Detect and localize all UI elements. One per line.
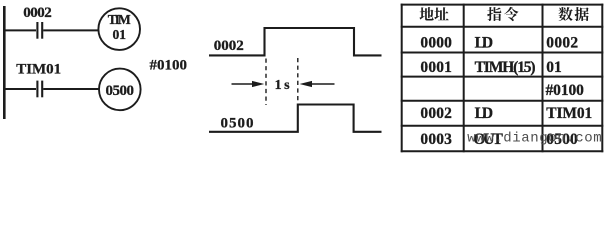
svg-text:01: 01	[546, 59, 562, 76]
svg-text:TIM01: TIM01	[546, 105, 592, 122]
table header cell: data (CJK shu ju)	[558, 7, 588, 21]
timer coil TIM 01 circle	[98, 8, 140, 50]
dashed marker at 0500 rising edge	[297, 58, 299, 103]
svg-text:#0100: #0100	[150, 58, 188, 74]
svg-text:LD: LD	[475, 34, 494, 51]
svg-text:01: 01	[112, 27, 126, 42]
table grid	[401, 4, 604, 153]
svg-text:0500: 0500	[221, 116, 254, 132]
svg-text:0002: 0002	[420, 105, 452, 122]
contact TIM01 (normally open)	[37, 81, 42, 98]
svg-text:0500: 0500	[106, 83, 135, 99]
svg-text:www.diangon.com: www.diangon.com	[467, 130, 602, 146]
contact 0002 (normally open)	[37, 22, 42, 39]
dimension arrow left (points right)	[232, 81, 265, 87]
wire rung2 left segment	[4, 88, 36, 90]
svg-text:0002: 0002	[546, 34, 578, 51]
left power rail	[3, 6, 6, 119]
svg-text:1 s: 1 s	[275, 78, 291, 93]
output coil 0500 circle	[99, 69, 141, 111]
svg-text:0003: 0003	[420, 131, 452, 148]
svg-text:0001: 0001	[420, 59, 452, 76]
waveform 0500 (delayed output pulse)	[209, 105, 382, 132]
svg-text:LD: LD	[475, 105, 494, 122]
wire rung1 right segment	[43, 29, 98, 31]
svg-text:#0100: #0100	[546, 82, 585, 99]
table header cell: instruction (CJK zhi ling)	[487, 7, 518, 21]
waveform 0002 (input pulse)	[209, 28, 382, 55]
wire rung2 right segment	[43, 88, 99, 90]
svg-text:0002: 0002	[214, 38, 244, 54]
svg-text:TIM01: TIM01	[16, 62, 61, 78]
svg-text:0002: 0002	[23, 5, 52, 21]
svg-text:0000: 0000	[420, 34, 452, 51]
svg-text:TIM: TIM	[108, 12, 131, 27]
dimension arrow right (points left)	[300, 81, 335, 87]
table header cell: address (CJK di zhi)	[419, 7, 448, 20]
svg-text:TIMH(15): TIMH(15)	[475, 59, 536, 76]
wire rung1 left segment	[4, 29, 36, 31]
dashed marker at 0002 rising edge	[265, 59, 267, 106]
